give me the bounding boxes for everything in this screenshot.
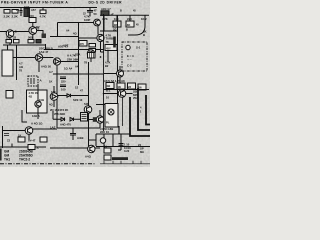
output rail 3	[146, 95, 150, 125]
value label	[49, 102, 53, 106]
value label	[73, 98, 83, 102]
wire vertical rail	[78, 22, 80, 85]
svg-text:22K: 22K	[127, 17, 132, 21]
svg-text:22K 56K: 22K 56K	[67, 57, 79, 61]
svg-text:560: 560	[28, 36, 33, 40]
svg-text:10: 10	[106, 96, 109, 100]
svg-text:22: 22	[128, 85, 132, 89]
svg-text:470: 470	[80, 42, 85, 46]
buffer U1	[35, 54, 42, 61]
value label TAE	[50, 126, 56, 130]
transistor Q4	[87, 50, 94, 57]
value label	[83, 12, 90, 21]
svg-text:A# 47: A# 47	[28, 138, 36, 142]
svg-text:B: B	[120, 10, 122, 13]
wire bend	[128, 26, 145, 35]
diode D3	[70, 118, 74, 122]
svg-text:DD-S 2D DRIVER: DD-S 2D DRIVER	[89, 1, 123, 5]
svg-text:SZE 10: SZE 10	[73, 98, 83, 102]
wire	[96, 104, 105, 106]
output rail 1	[130, 97, 150, 136]
wire	[95, 147, 100, 149]
rail heavy segment	[113, 37, 116, 48]
wire	[90, 57, 92, 62]
svg-text:B: B	[15, 30, 17, 34]
wire	[37, 31, 43, 39]
svg-text:#56 2ΩK: #56 2ΩK	[54, 112, 65, 116]
resistor R4	[40, 8, 47, 19]
power rail segment	[118, 126, 120, 134]
capacitor C4	[70, 128, 84, 140]
lamp PL1	[126, 45, 130, 49]
node	[93, 117, 97, 122]
relay RY1 dashed	[28, 76, 43, 86]
value label 2SA	[75, 53, 80, 57]
wire	[13, 58, 57, 75]
value label	[63, 43, 87, 64]
svg-text:B:1: B:1	[106, 88, 111, 92]
node	[78, 49, 79, 50]
resistor R14	[106, 83, 114, 89]
value label row	[50, 108, 68, 116]
resistor R26	[101, 11, 114, 16]
value label	[75, 64, 79, 68]
transistor Q6	[118, 90, 126, 98]
wire	[50, 36, 79, 38]
svg-text:12Ω A: 12Ω A	[32, 114, 40, 118]
svg-text:1K: 1K	[117, 85, 121, 89]
svg-text:S-1: S-1	[136, 45, 141, 49]
transistor Q11	[35, 101, 41, 107]
capacitor C1	[20, 8, 23, 17]
wire	[89, 110, 101, 128]
resistor R22	[104, 155, 111, 160]
value label	[31, 122, 43, 126]
wire	[104, 93, 118, 95]
value label COM	[100, 127, 113, 134]
wire	[104, 89, 150, 91]
value label	[101, 7, 111, 11]
wire	[79, 37, 97, 39]
resistor R20	[28, 145, 40, 151]
svg-text:Z2: Z2	[7, 138, 11, 142]
value label	[41, 64, 73, 70]
value label	[143, 30, 147, 37]
transistor Q3a	[94, 19, 101, 26]
resistor R19	[40, 137, 47, 142]
svg-text:45Y: 45Y	[106, 46, 111, 50]
resistor R18	[18, 133, 25, 142]
svg-text:50: 50	[94, 12, 98, 16]
svg-text:A4Ω: A4Ω	[85, 155, 92, 159]
svg-text:4.7K: 4.7K	[102, 17, 108, 21]
svg-text:AΩ: AΩ	[19, 65, 23, 69]
value label	[16, 8, 36, 12]
wire	[3, 44, 46, 50]
svg-text:187: 187	[51, 90, 56, 94]
terminal box	[6, 91, 13, 99]
chassis dash line	[0, 163, 96, 165]
wire	[88, 62, 90, 146]
svg-text:0.22: 0.22	[124, 149, 130, 153]
wire	[50, 147, 88, 149]
resistor R10	[88, 44, 96, 57]
svg-text:A8 S A8 4.7K A8: A8 S A8 4.7K A8	[104, 79, 125, 83]
value label	[58, 45, 69, 49]
svg-text:1K: 1K	[6, 36, 9, 40]
wire	[97, 26, 99, 35]
value label	[84, 102, 89, 106]
power rail +B	[117, 15, 119, 103]
svg-text:C-2: C-2	[127, 64, 132, 68]
wire	[103, 15, 105, 31]
svg-text:4Ω: 4Ω	[29, 95, 33, 99]
protection block box	[27, 84, 48, 119]
node	[100, 56, 102, 58]
wire mid bus	[53, 73, 104, 75]
wire bottom left bus	[0, 146, 46, 148]
svg-text:A4Ω 1K: A4Ω 1K	[41, 64, 51, 68]
title text PRE-DRIVER INPUT FM TUNER	[1, 1, 68, 5]
transistor Q1	[29, 26, 40, 34]
value label	[136, 45, 141, 49]
value label	[127, 64, 132, 68]
wire	[3, 126, 58, 148]
diode D2	[61, 118, 65, 122]
value label box	[105, 45, 117, 51]
transistor Q2	[6, 30, 17, 38]
wire	[89, 139, 97, 141]
svg-text:1S: 1S	[75, 85, 78, 89]
transistor Q7	[50, 93, 58, 101]
value label 2SC458	[39, 47, 54, 54]
svg-text:TH1: TH1	[4, 157, 10, 161]
resistor R6	[126, 21, 134, 31]
value label	[106, 88, 111, 99]
wire	[96, 133, 130, 135]
output rail 2	[138, 88, 150, 130]
resistor R24	[4, 134, 9, 136]
svg-text:4.7: 4.7	[19, 62, 23, 66]
resistor R15	[117, 83, 125, 89]
value label	[105, 60, 111, 68]
svg-text:1AE: 1AE	[50, 126, 56, 130]
thermistor block	[81, 113, 88, 122]
svg-text:100: 100	[114, 17, 119, 21]
buffer U2	[53, 58, 60, 65]
capacitor C3	[87, 8, 97, 17]
svg-text:4.7K: 4.7K	[40, 14, 47, 18]
wire	[54, 86, 67, 107]
legend block	[0, 149, 34, 162]
svg-text:A5E: A5E	[63, 43, 69, 47]
wire bottom right bus	[96, 146, 150, 148]
wire	[44, 49, 104, 51]
resistor R16	[128, 83, 136, 89]
dashed enclosure tone board	[122, 42, 147, 71]
wire	[53, 111, 89, 128]
wire	[122, 97, 124, 126]
value label	[133, 90, 138, 100]
wire	[95, 134, 97, 146]
svg-text:GH4: GH4	[24, 5, 30, 9]
transistor Q5	[117, 70, 124, 77]
wire	[0, 31, 29, 33]
diode D1	[67, 94, 71, 97]
resistor R23	[79, 41, 87, 47]
svg-text:B2: B2	[36, 25, 40, 29]
svg-text:4.7K 1S: 4.7K 1S	[29, 91, 39, 95]
svg-text:1 10: 1 10	[124, 142, 130, 146]
transistor Q13	[96, 116, 103, 123]
svg-text:A 4Ω 1Ω: A 4Ω 1Ω	[31, 122, 43, 126]
wire	[107, 51, 109, 63]
svg-text:33: 33	[13, 36, 16, 40]
value label	[138, 143, 145, 154]
resistor R13	[60, 85, 66, 91]
wire	[56, 74, 58, 128]
value label	[28, 138, 36, 142]
value label cluster	[106, 33, 116, 43]
wire	[61, 61, 79, 63]
svg-text:A57: A57	[31, 8, 36, 12]
wire top right bus	[100, 14, 149, 16]
input board box	[2, 45, 13, 76]
wire top bus	[0, 7, 97, 9]
svg-text:B2: B2	[105, 64, 109, 68]
svg-text:A4Ω 470: A4Ω 470	[60, 122, 71, 126]
resistor R3	[24, 5, 30, 17]
wire	[104, 134, 121, 148]
wire	[100, 161, 150, 164]
svg-text:2.2K: 2.2K	[4, 15, 11, 19]
svg-text:4.7K: 4.7K	[105, 60, 111, 64]
value label	[60, 122, 71, 126]
wire input bus	[58, 23, 94, 37]
svg-text:B: B	[143, 33, 145, 37]
node A	[103, 30, 104, 31]
svg-text:220: 220	[61, 79, 66, 83]
wire	[71, 95, 89, 97]
value label	[85, 155, 92, 159]
transistor Q9	[25, 127, 33, 135]
svg-text:10/16: 10/16	[124, 146, 131, 150]
svg-text:100: 100	[61, 87, 66, 91]
svg-text:1K: 1K	[18, 133, 21, 137]
resistor R9	[28, 34, 46, 43]
transistor Q10	[88, 145, 95, 152]
capacitor C2	[27, 8, 29, 17]
svg-text:100P: 100P	[84, 18, 90, 22]
transistor Q12	[100, 138, 105, 143]
wire	[119, 66, 121, 83]
svg-text:A4: A4	[75, 64, 79, 68]
resistor R2	[12, 10, 19, 19]
wire L bend	[22, 110, 27, 122]
svg-text:4Ω: 4Ω	[49, 102, 53, 106]
svg-text:B: B	[126, 28, 128, 31]
vertical rail mid left	[103, 14, 105, 131]
wire	[57, 127, 90, 129]
value label	[32, 114, 40, 118]
svg-text:78: 78	[106, 40, 109, 44]
svg-text:A4: A4	[66, 28, 70, 32]
wire tick	[11, 144, 13, 148]
resistor R21	[104, 144, 111, 153]
ground bar	[112, 157, 128, 160]
value label	[124, 142, 131, 153]
value label	[19, 62, 23, 73]
sub box with lamp	[105, 104, 118, 128]
node	[100, 49, 101, 50]
svg-text:150: 150	[29, 14, 34, 18]
value label	[49, 70, 53, 83]
svg-text:4Ω: 4Ω	[73, 32, 77, 36]
resistor R11	[88, 53, 96, 59]
svg-text:PL: PL	[106, 120, 110, 124]
value label	[127, 54, 134, 61]
value label	[66, 28, 77, 35]
svg-text:548: 548	[84, 102, 89, 106]
value label	[36, 25, 40, 29]
resistor R5	[113, 21, 121, 31]
wire	[104, 73, 116, 75]
transistor Q3	[97, 34, 104, 41]
wire	[10, 35, 33, 46]
svg-text:78: 78	[84, 61, 87, 65]
svg-text:1K: 1K	[16, 8, 19, 12]
svg-text:4.7: 4.7	[49, 70, 53, 74]
resistor R17	[138, 84, 146, 90]
value label	[51, 90, 56, 94]
wire	[144, 15, 146, 26]
node	[103, 93, 105, 95]
wire	[116, 15, 118, 21]
node	[78, 73, 79, 74]
wire	[53, 118, 80, 120]
svg-text:THC2-2: THC2-2	[19, 157, 30, 161]
svg-text:1Ω A#: 1Ω A#	[64, 66, 73, 70]
svg-text:1K: 1K	[49, 79, 52, 83]
value label	[7, 10, 136, 143]
resistor R12	[60, 77, 66, 83]
resistor R8	[6, 36, 19, 43]
svg-text:1AE 47: 1AE 47	[39, 50, 49, 54]
transistor Q8	[84, 106, 92, 114]
value label	[104, 79, 125, 83]
title text DD-S 2D DRIVER	[89, 1, 123, 5]
svg-text:A499: A499	[77, 136, 84, 140]
svg-text:1K 2: 1K 2	[141, 17, 147, 21]
wire	[101, 42, 105, 52]
svg-text:-- --: -- --	[127, 57, 132, 61]
wire	[129, 15, 131, 21]
wire	[126, 93, 133, 95]
wire	[100, 30, 117, 32]
resistor R1	[4, 10, 11, 19]
value label	[140, 105, 142, 113]
node labels right header row	[102, 17, 147, 26]
capacitor C5	[118, 134, 124, 150]
resistor R7	[29, 14, 36, 27]
svg-text:PRE-DRIVER INPUT FM-TUNER A: PRE-DRIVER INPUT FM-TUNER A	[1, 1, 68, 5]
wire rail	[16, 45, 18, 80]
svg-text:2.2K: 2.2K	[12, 15, 19, 19]
